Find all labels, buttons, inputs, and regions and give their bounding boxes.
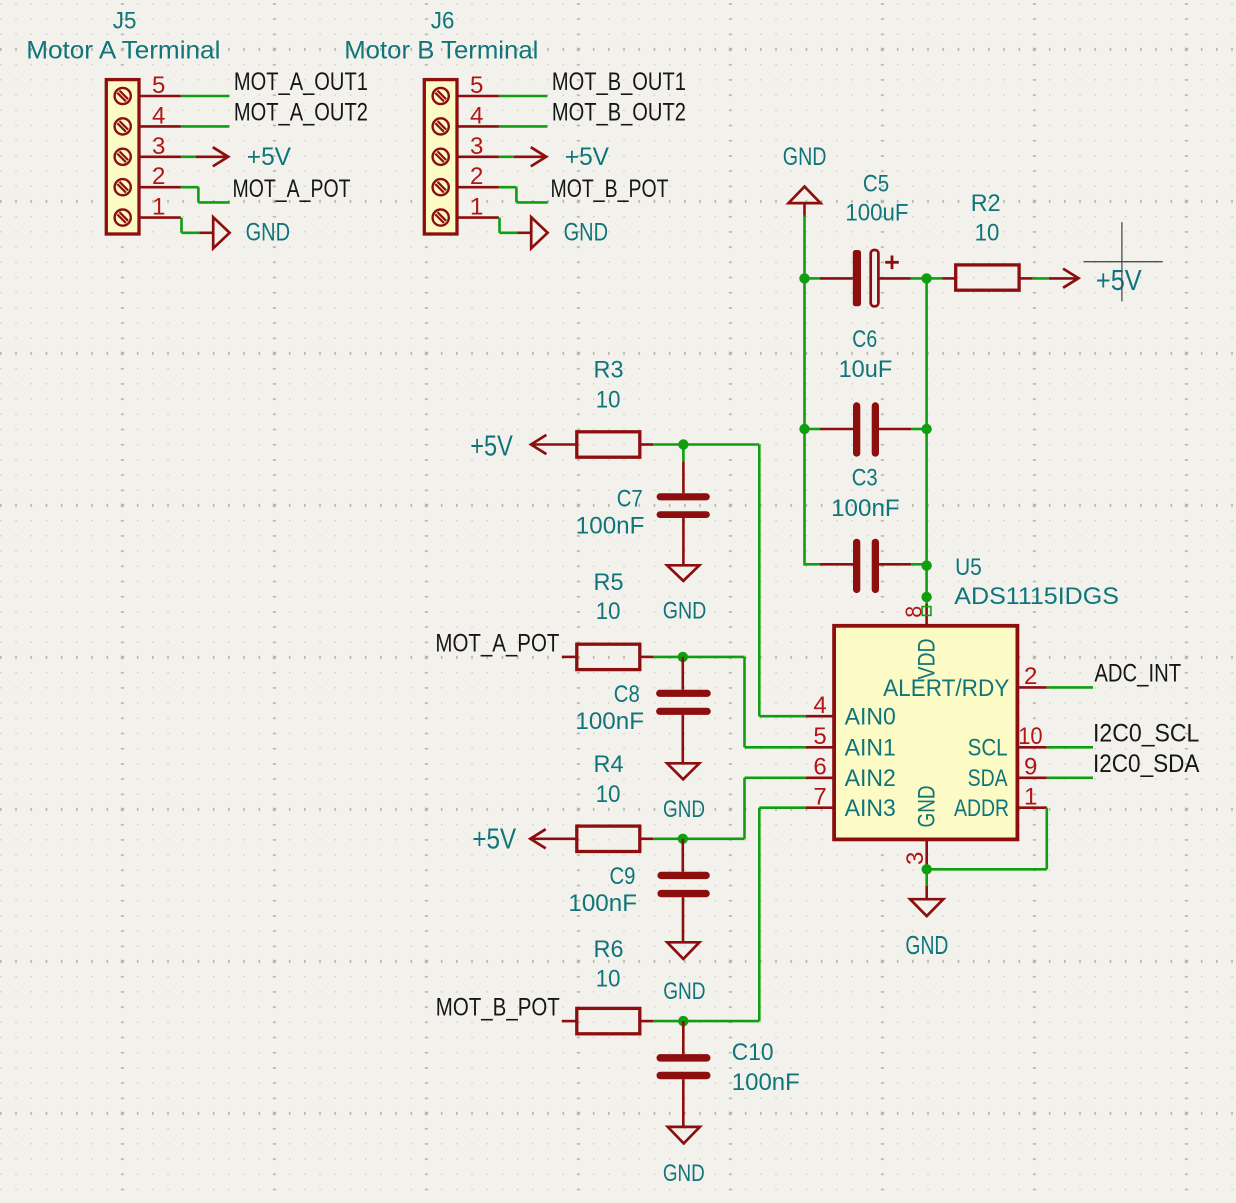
svg-text:R6: R6 [594, 936, 624, 963]
svg-text:100uF: 100uF [845, 200, 908, 227]
power GND at J5 pin 1 [199, 217, 290, 248]
svg-text:R3: R3 [594, 357, 624, 384]
power GND at J6 pin 1 [517, 217, 608, 248]
U5 pin name GND [914, 786, 941, 828]
svg-text:Motor B Terminal: Motor B Terminal [344, 36, 538, 64]
svg-text:MOT_A_OUT1: MOT_A_OUT1 [234, 68, 368, 96]
svg-text:2: 2 [470, 163, 483, 190]
svg-text:J6: J6 [431, 8, 455, 35]
junction below U5 pin 3 [922, 864, 932, 874]
svg-text:ADS1115IDGS: ADS1115IDGS [954, 583, 1119, 610]
svg-text:7: 7 [813, 784, 826, 811]
U5 pin name SDA [968, 765, 1008, 792]
J5 pin 3 [139, 133, 181, 160]
svg-text:10: 10 [596, 387, 621, 414]
wire J5 pin 5 to MOT_A_OUT1 [181, 95, 230, 98]
junction R6-C10 [678, 1016, 688, 1026]
svg-text:10: 10 [596, 598, 621, 625]
R3 value label [596, 387, 621, 414]
R2 value label [975, 220, 1000, 247]
junction R4-C9 [678, 834, 688, 844]
svg-text:MOT_B_POT: MOT_B_POT [551, 175, 669, 203]
R6 reference label [594, 936, 624, 963]
power GND below C7 [663, 565, 707, 624]
net label MOT_A_OUT1 [234, 68, 368, 96]
junction GND rail at C5 row [799, 273, 809, 283]
wire R6 junction to AIN3 [683, 808, 806, 1021]
C8 reference label [614, 681, 640, 708]
svg-text:GND: GND [564, 219, 608, 247]
wire ADC_INT [1047, 686, 1093, 689]
svg-text:+5V: +5V [565, 143, 610, 171]
svg-text:GND: GND [246, 219, 290, 247]
C6 value label [839, 356, 893, 383]
svg-text:ADDR: ADDR [954, 795, 1009, 822]
junction +5V rail at U5 VDD [921, 592, 931, 602]
svg-text:AIN2: AIN2 [845, 765, 896, 792]
wire ADDR to GND [927, 808, 1047, 870]
C7 reference label [617, 486, 643, 513]
U5 pin 5 [806, 723, 834, 750]
U5 pin name VDD [914, 639, 941, 680]
wire J6 pin 3 to +5V [499, 156, 515, 159]
C5 reference label [863, 171, 889, 198]
svg-text:+5V: +5V [472, 823, 516, 855]
C3 reference label [852, 464, 878, 491]
svg-text:9: 9 [1024, 754, 1037, 781]
resistor R5 [562, 644, 683, 669]
svg-text:GND: GND [905, 930, 948, 960]
U5 pin 3 GND [902, 839, 929, 869]
R3 reference label [594, 357, 624, 384]
svg-text:1: 1 [152, 194, 165, 221]
U5 value label ADS1115IDGS [954, 583, 1119, 610]
J5 value label [26, 36, 220, 64]
svg-text:5: 5 [470, 72, 483, 99]
C10 reference label [732, 1039, 774, 1066]
net label MOT_A_OUT2 [234, 99, 368, 127]
R6 value label [596, 966, 621, 993]
svg-text:3: 3 [152, 133, 165, 160]
wire I2C0_SCL [1047, 746, 1093, 749]
U5 pin name AIN3 [845, 795, 896, 822]
net label MOT_B_POT [551, 175, 669, 203]
svg-text:C3: C3 [852, 464, 878, 491]
svg-text:10: 10 [596, 781, 621, 808]
svg-text:4: 4 [470, 102, 483, 129]
R4 reference label [594, 751, 624, 778]
capacitor C8 [660, 657, 708, 763]
power GND below C10 [663, 1127, 705, 1187]
J5 pin 5 [139, 72, 181, 99]
wire I2C0_SDA [1047, 776, 1093, 779]
junction +5V rail at C3 row [921, 560, 931, 570]
capacitor C7 [660, 445, 706, 566]
junction +5V rail at C5 row [921, 273, 931, 283]
U5 pin name AIN1 [845, 735, 896, 762]
R5 reference label [594, 569, 624, 596]
connector J6 [424, 80, 457, 234]
svg-text:2: 2 [1024, 663, 1037, 690]
svg-text:100nF: 100nF [575, 708, 644, 735]
wire +5V rail vertical [925, 278, 928, 597]
wire J5 pin 1 to GND [182, 218, 200, 233]
power +5V at J5 pin 3 [196, 143, 291, 171]
svg-text:10uF: 10uF [839, 356, 893, 383]
net label MOT_B_OUT2 [552, 99, 686, 127]
svg-text:I2C0_SDA: I2C0_SDA [1093, 750, 1200, 778]
svg-text:5: 5 [813, 723, 826, 750]
connector J5 [106, 80, 139, 234]
svg-text:1: 1 [1024, 784, 1037, 811]
svg-text:MOT_A_POT: MOT_A_POT [435, 629, 559, 657]
svg-text:+5V: +5V [247, 143, 292, 171]
svg-text:AIN0: AIN0 [845, 704, 896, 731]
svg-text:100nF: 100nF [831, 495, 900, 522]
wire R3 junction to AIN0 [683, 445, 806, 717]
svg-text:100nF: 100nF [576, 512, 645, 539]
junction R5-C8 [678, 652, 688, 662]
U5 pin 7 [806, 784, 834, 811]
svg-text:GND: GND [914, 786, 941, 828]
svg-text:MOT_B_POT: MOT_B_POT [436, 994, 560, 1022]
U5 pin name AIN0 [845, 704, 896, 731]
svg-text:C5: C5 [863, 171, 889, 198]
J6 pin 2 [457, 163, 499, 190]
svg-text:GND: GND [663, 796, 705, 823]
wire J6 pin 1 to GND [500, 218, 518, 233]
U5 pin 9 SDA [1017, 754, 1046, 781]
C7 value label [576, 512, 645, 539]
svg-text:MOT_A_OUT2: MOT_A_OUT2 [234, 99, 368, 127]
J6 pin 4 [457, 102, 499, 129]
wire GND rail vertical [803, 216, 806, 566]
power GND top [783, 143, 827, 217]
svg-text:C10: C10 [732, 1039, 774, 1066]
U5 pin 6 [806, 754, 834, 781]
J5 reference label [113, 8, 137, 35]
svg-text:6: 6 [813, 754, 826, 781]
svg-text:GND: GND [663, 598, 707, 625]
J6 reference label [431, 8, 455, 35]
svg-text:2: 2 [152, 163, 165, 190]
resistor R6 [562, 1008, 683, 1033]
J6 pin 5 [457, 72, 499, 99]
J6 value label [344, 36, 538, 64]
wire J5 pin 3 to +5V [181, 156, 197, 159]
svg-text:+5V: +5V [1096, 265, 1142, 297]
svg-text:MOT_A_POT: MOT_A_POT [233, 175, 351, 203]
C10 value label [732, 1069, 800, 1096]
svg-text:GND: GND [663, 978, 705, 1005]
svg-text:100nF: 100nF [568, 890, 637, 917]
svg-text:3: 3 [470, 133, 483, 160]
svg-text:R2: R2 [971, 190, 1001, 217]
wire R5 junction to AIN1 [683, 657, 806, 747]
U5 pin 2 ALERT/RDY [1017, 663, 1046, 690]
svg-text:C9: C9 [610, 863, 636, 890]
R2 reference label [971, 190, 1001, 217]
capacitor C6 [805, 406, 927, 453]
svg-text:J5: J5 [113, 8, 137, 35]
net label I2C0_SCL [1093, 720, 1199, 748]
net label ADC_INT [1094, 660, 1181, 688]
C3 value label [831, 495, 900, 522]
U5 pin name ADDR [954, 795, 1009, 822]
power GND below C8 [663, 763, 705, 823]
svg-text:C7: C7 [617, 486, 643, 513]
J5 pin 1 [139, 194, 181, 221]
svg-text:C8: C8 [614, 681, 640, 708]
svg-text:R4: R4 [594, 751, 624, 778]
wire J6 pin 4 to MOT_B_OUT2 [499, 125, 548, 128]
svg-text:GND: GND [783, 143, 827, 171]
svg-text:5: 5 [152, 72, 165, 99]
U5 pin 10 SCL [1017, 723, 1046, 750]
wire J5 pin 4 to MOT_A_OUT2 [181, 125, 230, 128]
R5 value label [596, 598, 621, 625]
U5 pin 1 ADDR [1017, 784, 1046, 811]
resistor R2 [927, 265, 1049, 290]
U5 pin name ALERT/RDY [883, 675, 1009, 702]
net label MOT_A_POT [435, 629, 559, 657]
svg-text:10: 10 [975, 220, 1000, 247]
net label MOT_B_OUT1 [552, 68, 686, 96]
svg-text:4: 4 [152, 102, 165, 129]
J5 pin 2 [139, 163, 181, 190]
capacitor C10 [660, 1021, 707, 1127]
resistor R3 [577, 432, 683, 457]
U5 pin 8 VDD [901, 597, 931, 626]
wire J5 pin 2 to MOT_A_POT [181, 187, 230, 202]
svg-text:R5: R5 [594, 569, 624, 596]
wire C3 row left elbow [805, 563, 821, 566]
svg-text:SDA: SDA [968, 765, 1008, 792]
net label MOT_B_POT [436, 994, 560, 1022]
svg-text:10: 10 [596, 966, 621, 993]
power +5V at R4 [472, 823, 577, 855]
resistor R4 [577, 826, 683, 851]
junction R3-C7 [678, 439, 688, 449]
U5 pin name SCL [968, 735, 1008, 762]
svg-text:AIN1: AIN1 [845, 735, 896, 762]
C5 value label [845, 200, 908, 227]
op-amp U5 body [834, 626, 1017, 840]
svg-text:GND: GND [663, 1160, 705, 1187]
svg-text:I2C0_SCL: I2C0_SCL [1093, 720, 1199, 748]
svg-text:10: 10 [1018, 723, 1042, 750]
cursor crosshair [1084, 222, 1163, 301]
net label MOT_A_POT [233, 175, 351, 203]
svg-text:MOT_B_OUT2: MOT_B_OUT2 [552, 99, 686, 127]
svg-text:ADC_INT: ADC_INT [1094, 660, 1181, 688]
junction +5V rail at C6 row [921, 424, 931, 434]
junction GND rail at C6 row [799, 424, 809, 434]
U5 pin 4 [806, 692, 834, 719]
capacitor C5 [805, 250, 927, 306]
wire J6 pin 2 to MOT_B_POT [499, 187, 548, 202]
svg-text:MOT_B_OUT1: MOT_B_OUT1 [552, 68, 686, 96]
svg-text:1: 1 [470, 194, 483, 221]
C6 reference label [852, 326, 877, 353]
wire R4 junction to AIN2 [683, 778, 806, 839]
svg-text:100nF: 100nF [732, 1069, 800, 1096]
power GND below C9 [663, 942, 705, 1005]
capacitor C9 [661, 839, 706, 943]
power +5V at R2 [1049, 265, 1142, 297]
C9 value label [568, 890, 637, 917]
svg-text:VDD: VDD [914, 639, 941, 680]
U5 pin name AIN2 [845, 765, 896, 792]
svg-text:+5V: +5V [470, 430, 513, 462]
wire J6 pin 5 to MOT_B_OUT1 [499, 95, 548, 98]
svg-text:AIN3: AIN3 [845, 795, 896, 822]
power +5V at R3 [470, 430, 577, 462]
svg-text:Motor A Terminal: Motor A Terminal [26, 36, 220, 64]
power GND below U5 [905, 869, 948, 960]
svg-text:U5: U5 [955, 554, 982, 581]
net label I2C0_SDA [1093, 750, 1200, 778]
J6 pin 3 [457, 133, 499, 160]
capacitor C3 [820, 542, 927, 589]
C9 reference label [610, 863, 636, 890]
J5 pin 4 [139, 102, 181, 129]
U5 reference label [955, 554, 982, 581]
svg-text:4: 4 [813, 692, 826, 719]
svg-text:ALERT/RDY: ALERT/RDY [883, 675, 1009, 702]
C8 value label [575, 708, 644, 735]
power +5V at J6 pin 3 [514, 143, 609, 171]
J6 pin 1 [457, 194, 499, 221]
svg-text:C6: C6 [852, 326, 877, 353]
svg-text:3: 3 [902, 852, 929, 865]
R4 value label [596, 781, 621, 808]
svg-text:SCL: SCL [968, 735, 1008, 762]
